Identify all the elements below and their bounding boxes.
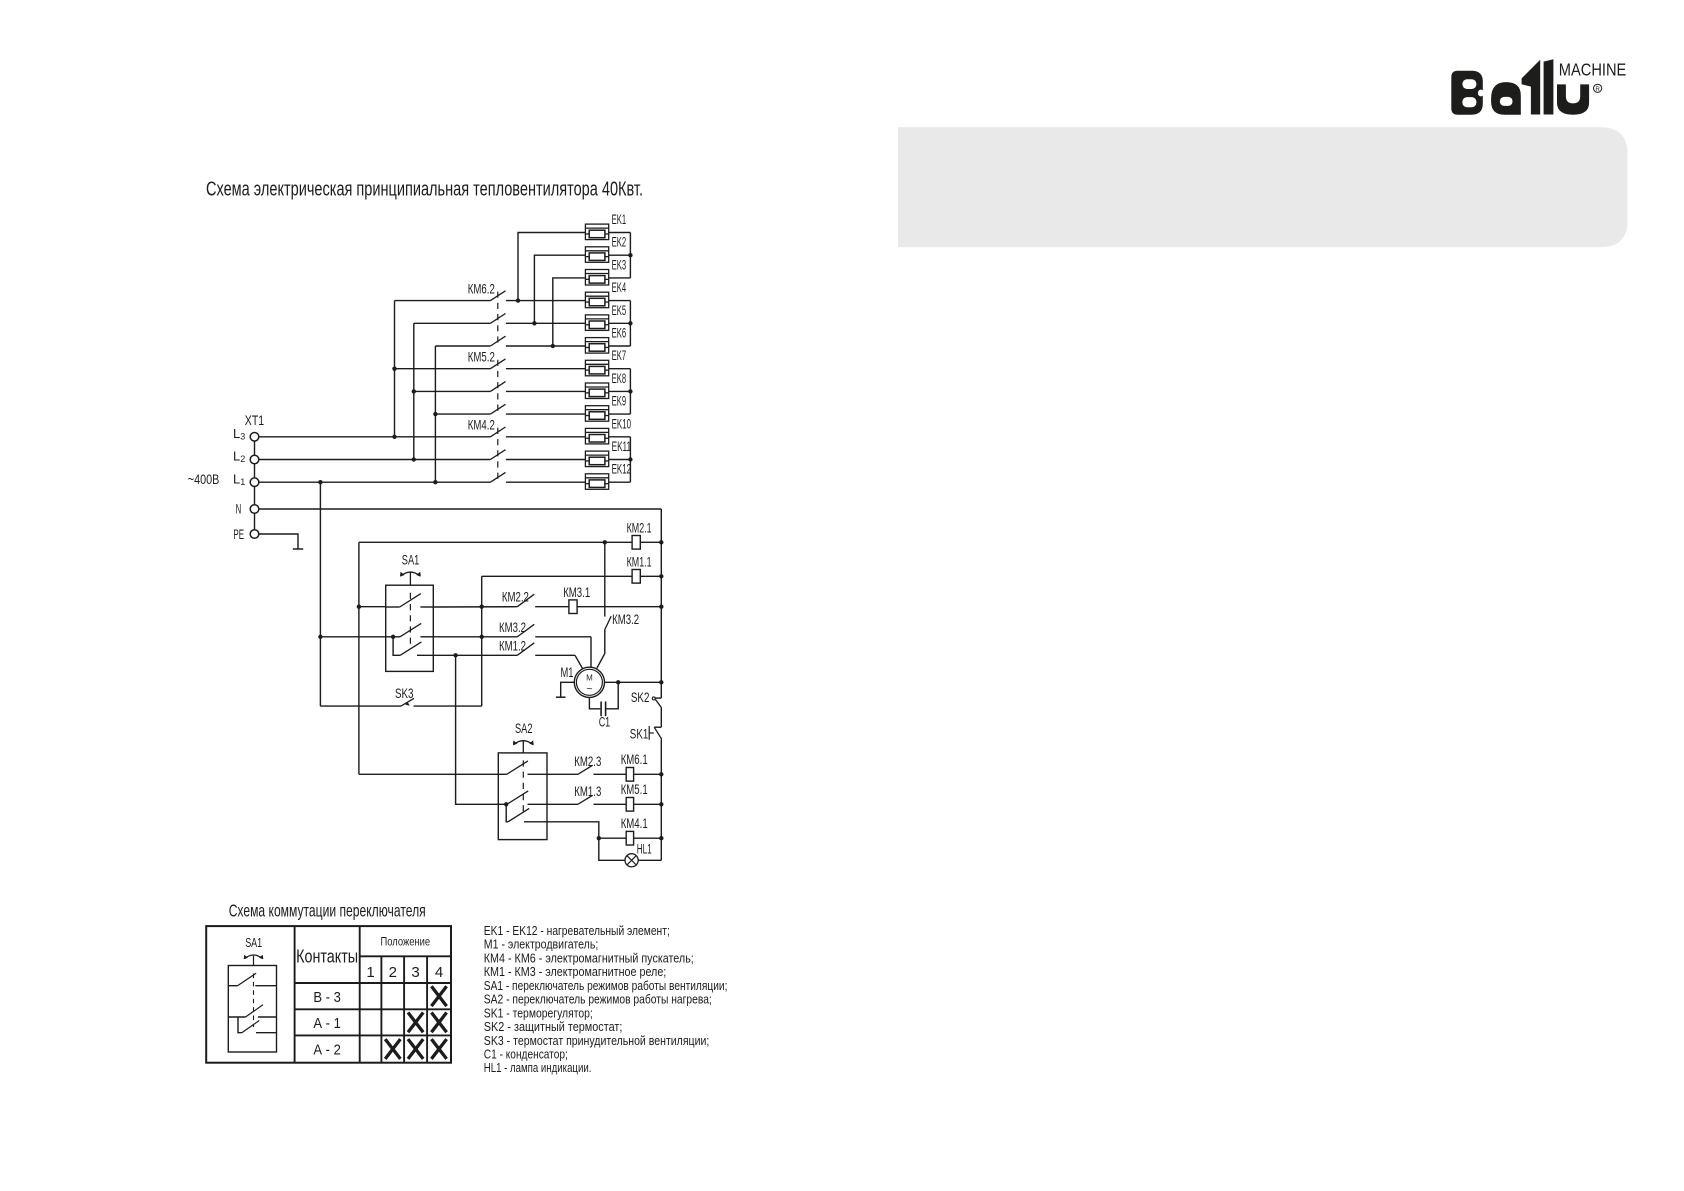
- Ballu logo: [1451, 59, 1589, 114]
- junction bus/KM5.1: [659, 802, 663, 806]
- heater EK12: [585, 462, 631, 490]
- contactor contact КМ4.2 pole 2: [490, 450, 505, 460]
- svg-text:2: 2: [240, 454, 245, 464]
- heater EK6: [585, 326, 630, 354]
- svg-text:Положение: Положение: [381, 936, 431, 948]
- logo letter u: [1557, 84, 1589, 114]
- contactor contact КМ5.2 pole 2: [414, 390, 491, 392]
- junction KM2.1/KM3.2 branch: [603, 540, 607, 544]
- heater EK11: [585, 439, 631, 467]
- junction branch EK3: [551, 344, 555, 348]
- terminal L2: [250, 455, 259, 464]
- table X mark A-2 pos4: [431, 1039, 446, 1059]
- heater EK4: [585, 280, 630, 308]
- svg-text:EK11: EK11: [612, 439, 632, 454]
- svg-text:EK4: EK4: [612, 280, 627, 295]
- wire SA2 row2 feed: [456, 655, 499, 804]
- ground motor: [556, 696, 566, 698]
- relay contact KM3.2 (vertical): [605, 616, 612, 630]
- svg-text:1: 1: [366, 964, 374, 981]
- wire L3 phase: [259, 436, 491, 438]
- svg-text:XT1: XT1: [245, 413, 264, 428]
- wire branch to EK3: [553, 278, 586, 346]
- wire feeder v1 (L3 branch): [394, 301, 396, 437]
- junction v3/KM5.2: [433, 412, 437, 416]
- svg-text:Схема электрическая принципиал: Схема электрическая принципиальная тепло…: [206, 179, 643, 201]
- wire bus SK2-SK1: [660, 708, 662, 728]
- svg-text:КМ2.1: КМ2.1: [627, 521, 652, 536]
- svg-text:EK1: EK1: [612, 212, 627, 227]
- contactor contact КМ6.2 pole 2: [414, 322, 491, 324]
- svg-text:КМ3.2: КМ3.2: [612, 612, 639, 627]
- table switch SA1 pictogram: [228, 936, 276, 1052]
- svg-text:~400В: ~400В: [188, 472, 220, 487]
- junction v1/L3: [392, 435, 396, 439]
- wire vertical KM1.1 feed: [481, 576, 483, 706]
- mechanical link KM4.2: [497, 428, 499, 482]
- logo digit 1 (first): [1522, 60, 1541, 115]
- svg-text:М: М: [586, 674, 593, 683]
- junction star bus EK5: [628, 321, 632, 325]
- wire HL1 to bus: [638, 859, 661, 861]
- table row divider 1: [295, 982, 451, 984]
- svg-text:EK10: EK10: [612, 416, 632, 431]
- table position dividers: [380, 956, 382, 1062]
- svg-text:SK2: SK2: [631, 690, 650, 705]
- wire XT1 terminal links: [254, 441, 256, 455]
- junction star bus EK2: [628, 253, 632, 257]
- relay contact KM2.2: [517, 594, 534, 607]
- junction right bus / motor: [659, 680, 663, 684]
- wire row1 to KM2.2: [433, 606, 517, 608]
- terminal L1: [250, 478, 259, 487]
- heater EK7: [585, 348, 630, 376]
- svg-text:КМ1.3: КМ1.3: [574, 784, 601, 799]
- wire L2 phase: [259, 459, 491, 461]
- svg-text:КМ3.2: КМ3.2: [499, 620, 526, 635]
- svg-text:2: 2: [389, 964, 397, 981]
- wire row3 to KM1.2: [433, 654, 517, 656]
- wire row KM6.1: [547, 773, 578, 775]
- junction v2/L2: [412, 457, 416, 461]
- svg-text:N: N: [236, 501, 242, 516]
- svg-text:EK3: EK3: [612, 257, 627, 272]
- wire branch to EK2: [534, 255, 585, 323]
- table X mark A-2 pos2: [385, 1039, 400, 1059]
- heater EK5: [585, 303, 630, 331]
- junction row3 / SA2 feed: [453, 653, 457, 657]
- contactor contact КМ6.2 pole 3: [435, 345, 490, 347]
- svg-text:M1: M1: [561, 665, 574, 680]
- contactor contact КМ4.2 pole 3: [490, 472, 505, 482]
- relay contact KM3.2: [517, 624, 534, 637]
- wire KM3.2 to motor: [597, 630, 605, 668]
- junction KM2.2 row: [480, 605, 484, 609]
- svg-text:HL1: HL1: [637, 842, 652, 857]
- relay contact KM1.3: [578, 795, 593, 804]
- svg-text:~: ~: [586, 683, 592, 695]
- capacitor C1: [600, 702, 602, 717]
- wire L1 drop to control circuit: [319, 482, 321, 706]
- relay contact KM1.2: [517, 643, 534, 656]
- table column divider 1: [294, 926, 296, 1063]
- wire feeder v3 (L1 branch): [434, 346, 436, 482]
- wire branch to EK1: [518, 233, 585, 301]
- table frame: [206, 926, 451, 1063]
- wire SA1 row2 feed: [320, 636, 385, 638]
- junction v2/KM5.2: [412, 389, 416, 393]
- wire bus lower: [660, 739, 662, 860]
- svg-text:КМ5.1: КМ5.1: [621, 782, 648, 797]
- svg-text:EK2: EK2: [612, 235, 627, 250]
- wire feeder v2 (L2 branch): [413, 323, 415, 459]
- svg-text:В - 3: В - 3: [313, 990, 341, 1006]
- wire row KM4.1 from SA2: [547, 822, 599, 838]
- wire N: [259, 508, 662, 510]
- junction v3/L1: [433, 480, 437, 484]
- table header divider: [360, 955, 451, 957]
- wire motor left lead: [561, 682, 575, 697]
- switch SA1 contact 3: [400, 642, 421, 655]
- svg-text:КМ3.1: КМ3.1: [563, 585, 590, 600]
- svg-text:1: 1: [240, 477, 245, 487]
- junction v1/KM5.2: [392, 367, 396, 371]
- svg-text:КМ1.1: КМ1.1: [627, 555, 652, 570]
- junction SA1 row1 feed: [357, 605, 361, 609]
- wire HL1 branch: [599, 838, 625, 860]
- switch SA2 contact 1: [498, 773, 507, 775]
- mechanical link KM5.2: [497, 360, 499, 414]
- wire vertical KM2.1 feed: [358, 542, 360, 774]
- relay contact KM2.3: [578, 765, 593, 774]
- svg-text:КМ2.2: КМ2.2: [502, 590, 529, 605]
- svg-text:КМ6.2: КМ6.2: [468, 281, 495, 296]
- switch SA2 contact 2: [498, 803, 506, 805]
- wire row2 drop to motor: [590, 637, 592, 668]
- svg-text:MACHINE: MACHINE: [1559, 59, 1627, 79]
- svg-text:L: L: [233, 471, 240, 486]
- relay coil KM2.1: [359, 541, 632, 543]
- svg-text:4: 4: [435, 964, 443, 981]
- wire KM3.2 branch vertical: [604, 542, 606, 616]
- svg-text:EK5: EK5: [612, 303, 627, 318]
- switch SA2 contact 3: [508, 808, 529, 821]
- wire PE: [259, 534, 298, 549]
- table row divider 3: [295, 1034, 451, 1036]
- svg-text:Контакты: Контакты: [296, 947, 358, 967]
- contactor contact КМ5.2 pole 3: [435, 413, 490, 415]
- motor M1: [561, 665, 605, 697]
- junction bus/KM6.1: [659, 772, 663, 776]
- terminal PE: [250, 530, 259, 539]
- svg-text:SK1: SK1: [630, 726, 649, 741]
- logo letter a: [1491, 82, 1521, 115]
- lamp HL1: [625, 842, 652, 867]
- svg-text:SA1: SA1: [245, 936, 262, 950]
- junction right bus / KM3.1: [659, 605, 663, 609]
- svg-text:L: L: [233, 449, 240, 464]
- terminal L3: [250, 433, 259, 442]
- wire motor right lead: [605, 681, 662, 683]
- svg-text:КМ1.2: КМ1.2: [499, 639, 526, 654]
- switch SA1 contact 2: [386, 636, 400, 638]
- svg-text:Схема коммутации переключателя: Схема коммутации переключателя: [229, 901, 426, 921]
- thermoregulator contact SK1: [654, 726, 661, 728]
- logo letter B: [1451, 71, 1483, 115]
- mechanical link KM6.2: [497, 292, 499, 346]
- star bus EK4-EK6: [629, 301, 631, 346]
- svg-text:КМ4.2: КМ4.2: [468, 418, 495, 433]
- svg-text:КМ4.1: КМ4.1: [621, 816, 648, 831]
- svg-text:3: 3: [240, 432, 245, 442]
- svg-text:EK7: EK7: [612, 348, 627, 363]
- junction SA1 contact 2 feed: [391, 635, 395, 639]
- wire SA1 link contact2-contact3: [393, 637, 400, 656]
- junction KM3.2 row: [480, 635, 484, 639]
- svg-text:R: R: [1595, 86, 1600, 93]
- wire C1 to motor right: [606, 682, 618, 709]
- star bus EK10-EK12: [629, 437, 631, 482]
- junction right bus / KM2.1: [659, 540, 663, 544]
- star bus EK1-EK3: [629, 233, 631, 278]
- wire SA2 link contact2-contact3: [506, 804, 508, 822]
- svg-text:С1: С1: [599, 715, 611, 730]
- svg-text:КМ5.2: КМ5.2: [468, 350, 495, 365]
- relay coil KM1.1: [482, 575, 632, 577]
- heater EK3: [585, 257, 630, 285]
- thermostat contact SK2: [655, 697, 661, 699]
- table X mark A-2 pos3: [408, 1039, 423, 1059]
- ground PE: [293, 548, 303, 550]
- junction star bus EK8: [628, 389, 632, 393]
- svg-text:КМ6.1: КМ6.1: [621, 752, 648, 767]
- contactor contact КМ6.2 pole 1: [395, 300, 491, 302]
- contactor coil KM6.1: [626, 768, 633, 782]
- svg-text:HL1 - лампа индикации.: HL1 - лампа индикации.: [484, 1060, 592, 1075]
- table X mark A-1 pos4: [431, 1013, 446, 1033]
- svg-text:SK3: SK3: [395, 686, 414, 701]
- switch SA1: [386, 553, 434, 672]
- wire row KM4.1: [599, 837, 626, 839]
- svg-text:EK12: EK12: [612, 462, 632, 477]
- junction motor/C1: [616, 680, 620, 684]
- wire L1 phase: [259, 481, 491, 483]
- junction branch EK1: [516, 298, 520, 302]
- wire SK3 row feed: [320, 705, 401, 707]
- thermostat contact SK3: [401, 698, 414, 706]
- heater EK10: [585, 416, 631, 444]
- svg-text:EK9: EK9: [612, 394, 627, 409]
- terminal N: [250, 505, 259, 514]
- wire row2 to KM3.2: [433, 636, 517, 638]
- wire SA2 row1 feed: [359, 773, 498, 775]
- logo digit 1 (second): [1544, 59, 1554, 114]
- svg-text:КМ2.3: КМ2.3: [574, 754, 601, 769]
- svg-text:3: 3: [411, 964, 419, 981]
- junction right bus / KM1.1: [659, 574, 663, 578]
- contactor coil KM4.1: [626, 831, 633, 845]
- heater EK8: [585, 371, 630, 399]
- junction KM4.1/HL1: [597, 836, 601, 840]
- heater EK1: [585, 212, 630, 240]
- switch SA1 contact 1: [386, 606, 400, 608]
- junction bus/KM4.1: [659, 836, 663, 840]
- gray header panel: [898, 127, 1628, 247]
- heater EK2: [585, 235, 630, 263]
- wire N bus corner / right bus upper: [660, 509, 662, 698]
- junction branch EK2: [532, 321, 536, 325]
- svg-text:SA2: SA2: [515, 721, 533, 736]
- svg-text:А - 2: А - 2: [313, 1043, 341, 1059]
- svg-text:EK8: EK8: [612, 371, 627, 386]
- wire row3 into motor: [575, 655, 583, 669]
- relay coil KM3.1: [569, 600, 577, 614]
- logo registered mark: [1594, 84, 1602, 92]
- heater EK9: [585, 394, 630, 422]
- svg-text:SA1: SA1: [402, 553, 420, 568]
- wire motor bottom lead: [589, 697, 600, 709]
- svg-text:А - 1: А - 1: [313, 1016, 341, 1032]
- junction L1 drop row2: [318, 635, 322, 639]
- contactor contact КМ4.2 pole 1: [490, 427, 505, 437]
- svg-text:L: L: [233, 426, 240, 441]
- table row divider 2: [295, 1008, 451, 1010]
- table X mark A-1 pos3: [408, 1013, 423, 1033]
- wire row KM5.1: [547, 803, 578, 805]
- table column divider 2: [359, 926, 361, 1063]
- table X mark B-3 pos4: [431, 986, 446, 1006]
- junction SA2 contact 2 feed: [504, 802, 508, 806]
- contactor coil KM5.1: [626, 798, 633, 812]
- junction star bus EK11: [628, 457, 632, 461]
- star bus EK7-EK9: [629, 369, 631, 414]
- junction L1 drop: [318, 480, 322, 484]
- svg-text:EK6: EK6: [612, 326, 627, 341]
- wire SA1 row1 feed: [359, 606, 386, 608]
- switch SA2: [498, 721, 547, 839]
- contactor contact КМ5.2 pole 1: [395, 368, 491, 370]
- svg-text:PE: PE: [233, 527, 244, 542]
